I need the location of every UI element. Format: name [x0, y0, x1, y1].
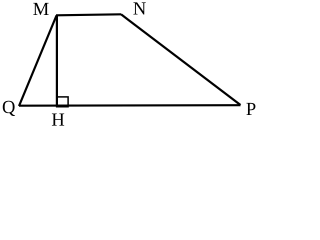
side NP (right slanted side of trapezoid)	[121, 14, 241, 105]
svg-text:H: H	[51, 111, 64, 130]
right angle marker bottom bar at H	[56, 105, 69, 108]
altitude MH (perpendicular from M to QP)	[56, 15, 58, 106]
svg-text:M: M	[33, 0, 49, 20]
svg-text:Q: Q	[2, 98, 16, 118]
right angle marker at H	[57, 97, 68, 106]
side MN (top side of trapezoid)	[56, 14, 121, 15]
side QP (bottom side of trapezoid)	[19, 104, 241, 107]
svg-text:N: N	[133, 0, 146, 20]
side QM (left slanted side of trapezoid)	[19, 16, 57, 107]
svg-text:P: P	[246, 100, 256, 120]
